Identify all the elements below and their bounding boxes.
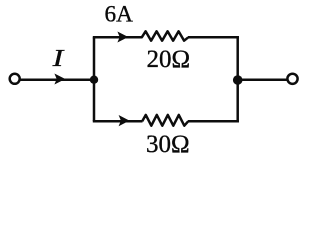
wire left vertical branch — [93, 37, 96, 121]
svg-text:20Ω: 20Ω — [147, 46, 191, 73]
wire bottom-left segment — [93, 120, 143, 123]
wire output lead — [238, 78, 288, 81]
svg-text:I: I — [51, 46, 65, 72]
wire bottom-right segment — [188, 120, 239, 123]
svg-text:6A: 6A — [105, 2, 134, 28]
node left junction — [90, 76, 98, 84]
wire top-right segment — [188, 36, 239, 39]
wire top-left segment — [93, 36, 143, 39]
svg-text:30Ω: 30Ω — [146, 131, 190, 158]
resistor R2 zigzag — [142, 115, 188, 126]
wire right vertical branch — [236, 36, 239, 122]
node right junction — [233, 75, 243, 85]
6A branch arrow — [117, 32, 128, 43]
right terminal — [287, 74, 297, 84]
wire input lead — [20, 78, 94, 81]
resistor R1 zigzag — [142, 31, 189, 40]
current arrow I — [54, 74, 65, 85]
bottom branch arrow — [119, 115, 130, 126]
left terminal — [10, 74, 20, 84]
